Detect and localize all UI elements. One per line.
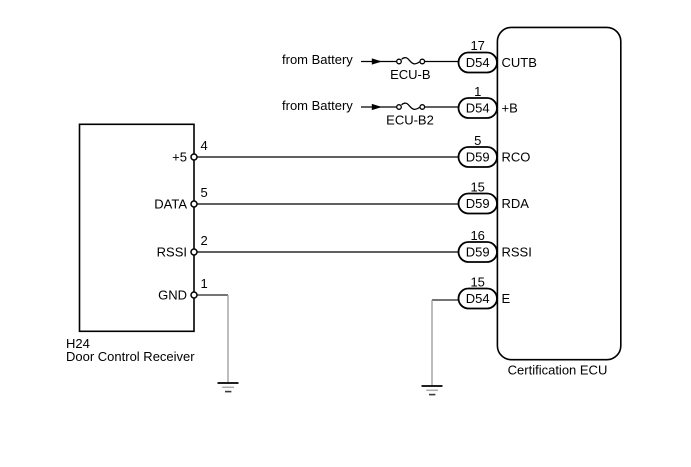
svg-text:D54: D54: [466, 291, 490, 306]
svg-text:1: 1: [474, 84, 481, 99]
svg-text:D54: D54: [466, 55, 490, 70]
svg-text:1: 1: [201, 276, 208, 291]
svg-text:Door Control Receiver: Door Control Receiver: [66, 349, 195, 364]
svg-text:D59: D59: [466, 196, 490, 211]
svg-text:5: 5: [201, 185, 208, 200]
svg-text:ECU-B2: ECU-B2: [386, 113, 434, 128]
pin 5 (DATA) of H24: [154, 185, 207, 212]
svg-text:RSSI: RSSI: [157, 245, 187, 260]
svg-text:from Battery: from Battery: [282, 98, 353, 113]
connector D59 pin 5 (RCO): [459, 133, 498, 167]
svg-text:15: 15: [470, 274, 484, 289]
pin 1 (GND) of H24: [158, 276, 208, 303]
svg-text:17: 17: [470, 38, 484, 53]
fuse ECU-B: [390, 58, 430, 82]
wire battery to fuse ECU-B: [361, 61, 397, 63]
wire RSSI to RSSI: [194, 251, 459, 253]
svg-text:2: 2: [201, 233, 208, 248]
component box H24 Door Control Receiver: [80, 124, 195, 331]
wire battery to fuse ECU-B2: [361, 106, 397, 108]
svg-text:RSSI: RSSI: [502, 245, 532, 260]
wire +5 to RCO: [194, 156, 459, 158]
wire E to ground: [432, 299, 459, 301]
svg-text:ECU-B: ECU-B: [390, 67, 430, 82]
wire ground drop (right): [431, 300, 433, 385]
svg-text:DATA: DATA: [154, 197, 187, 212]
svg-text:Certification ECU: Certification ECU: [508, 363, 608, 378]
svg-text:16: 16: [470, 228, 484, 243]
connector D54 pin 1 (+B): [459, 84, 498, 118]
svg-text:+5: +5: [172, 150, 187, 165]
arrow current direction: [372, 104, 382, 110]
wire fuse to connector D54 pin 1: [424, 106, 459, 108]
ground (right): [422, 386, 443, 395]
svg-text:GND: GND: [158, 288, 187, 303]
connector D54 pin 15 (E): [459, 274, 498, 308]
fuse ECU-B2: [386, 103, 434, 127]
svg-text:4: 4: [201, 138, 208, 153]
wire GND to ground: [194, 294, 228, 296]
wire DATA to RDA: [194, 203, 459, 205]
svg-text:RCO: RCO: [502, 150, 531, 165]
svg-text:D59: D59: [466, 150, 490, 165]
wire fuse to connector D54 pin 17: [424, 61, 459, 63]
component box Certification ECU: [497, 27, 620, 359]
ground (left): [218, 383, 239, 392]
pin 2 (RSSI) of H24: [157, 233, 208, 260]
svg-text:5: 5: [474, 133, 481, 148]
connector D59 pin 16 (RSSI): [459, 228, 498, 262]
connector D59 pin 15 (RDA): [459, 179, 498, 213]
svg-text:15: 15: [470, 179, 484, 194]
svg-text:RDA: RDA: [502, 196, 530, 211]
svg-text:from Battery: from Battery: [282, 52, 353, 67]
svg-text:+B: +B: [502, 101, 518, 116]
svg-text:CUTB: CUTB: [502, 55, 537, 70]
arrow current direction: [372, 58, 382, 64]
pin 4 (+5) of H24: [172, 138, 208, 165]
svg-text:D54: D54: [466, 101, 490, 116]
svg-text:E: E: [502, 291, 511, 306]
svg-text:D59: D59: [466, 245, 490, 260]
connector D54 pin 17 (CUTB): [459, 38, 498, 72]
wire ground drop (left): [227, 295, 229, 382]
